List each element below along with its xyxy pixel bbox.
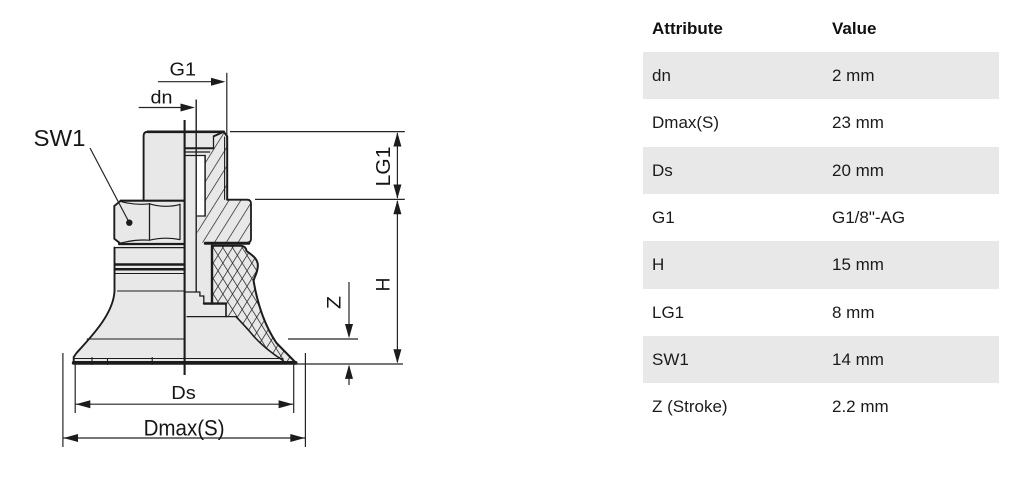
svg-text:SW1: SW1: [34, 125, 86, 151]
svg-text:Z: Z: [325, 296, 346, 309]
svg-text:G1: G1: [170, 60, 197, 80]
svg-text:Ds: Ds: [171, 383, 196, 403]
svg-text:H: H: [374, 278, 395, 292]
svg-text:Dmax(S): Dmax(S): [144, 415, 225, 440]
svg-text:LG1: LG1: [373, 147, 395, 187]
svg-text:dn: dn: [151, 88, 173, 108]
